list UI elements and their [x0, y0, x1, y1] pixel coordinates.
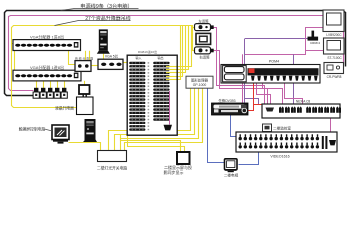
- wire red mixer-dvd: [249, 73, 254, 111]
- mic left (左话筒): [195, 24, 211, 31]
- wire mic1 feed: [193, 27, 195, 29]
- wire matrix input 4: [177, 26, 189, 70]
- svg-text:GP-1000: GP-1000: [193, 83, 207, 87]
- wire blue tv to video1616: [239, 153, 259, 165]
- wire lamp feed 1: [109, 89, 191, 151]
- display sync box: [177, 152, 190, 164]
- wire matrix speaker violet: [169, 91, 171, 125]
- svg-text:二楼灯光开关电脑: 二楼灯光开关电脑: [97, 165, 128, 170]
- wire splitter1 left feed: [11, 43, 13, 45]
- wire red to nexia: [254, 104, 263, 106]
- monitor room icon box: [263, 124, 272, 132]
- svg-text:音 频 分 配 器: 音 频 分 配 器: [75, 56, 93, 61]
- svg-text:输出: 输出: [157, 55, 163, 60]
- lamp switch PC box: [98, 151, 127, 162]
- wire violet down to dvd: [244, 39, 246, 103]
- wire pass-through to nexia: [293, 54, 295, 104]
- device CR-PWR8: [324, 63, 344, 74]
- svg-text:LVB9200C: LVB9200C: [326, 33, 342, 37]
- wire yellow lifter-cable loop: [12, 26, 193, 108]
- CRRF4 receiver: [312, 31, 315, 38]
- svg-text:触摸屏控制电脑: 触摸屏控制电脑: [19, 126, 46, 131]
- LCD lifter: [79, 85, 90, 94]
- wire nexia to video1616: [330, 118, 332, 137]
- svg-text:CR-PWR8: CR-PWR8: [327, 75, 342, 79]
- wire matrix row stub 3: [166, 72, 177, 74]
- wire lvb9200c link: [245, 28, 323, 55]
- wire matrix row stub 4: [166, 69, 177, 71]
- svg-text:左话筒: 左话筒: [198, 19, 209, 24]
- wire matrix input 5: [177, 26, 192, 67]
- wire pink down to dvd: [242, 54, 244, 102]
- callout leader lifter: [55, 21, 131, 26]
- wire power-line loop (black): [5, 11, 346, 96]
- VGA interface box: [98, 59, 123, 69]
- mic right (右话筒): [195, 47, 211, 54]
- svg-text:RGB16进16出: RGB16进16出: [138, 49, 157, 54]
- VGA splitter 2 (1进8出): [13, 70, 81, 81]
- mixer POM4: [221, 65, 320, 84]
- svg-text:POM4: POM4: [269, 60, 279, 64]
- svg-text:输入: 输入: [135, 55, 141, 60]
- wire st7100c link: [306, 50, 324, 52]
- wire splitter1 out port down: [69, 51, 75, 65]
- DSP NEXIA C8: [262, 104, 340, 118]
- svg-text:CRRF4: CRRF4: [310, 41, 320, 45]
- device LVB9200C: [323, 10, 344, 32]
- wire crrf4 to nexia: [245, 38, 309, 40]
- svg-text:NEXIA C8: NEXIA C8: [296, 100, 311, 104]
- wire audio box to vga box: [91, 65, 98, 67]
- audio distributor box: [75, 61, 91, 72]
- wire mixer out 3: [285, 83, 303, 105]
- wire blue gp to tv: [208, 89, 225, 163]
- label leader touchscreen: [45, 129, 53, 131]
- device ST-7100C: [324, 38, 345, 54]
- wire plug drop 1: [36, 81, 38, 88]
- svg-text:VGA 5芯: VGA 5芯: [105, 53, 119, 58]
- svg-text:VGA分配器 1进8出: VGA分配器 1进8出: [30, 34, 64, 40]
- wire lamp feed 2: [115, 89, 195, 151]
- wire display box feed 2: [128, 135, 185, 153]
- wire matrix input 3: [177, 26, 186, 73]
- touchscreen control PC: [52, 125, 69, 140]
- tower PC 2: [85, 119, 96, 141]
- svg-text:液晶升降器: 液晶升降器: [55, 106, 74, 111]
- svg-text:右话筒: 右话筒: [199, 54, 210, 59]
- wire mic1 to nexia: [214, 28, 265, 105]
- tower PC 1: [99, 29, 108, 50]
- wire stub a: [85, 51, 87, 61]
- wire mixer out 1: [257, 83, 271, 105]
- wire lamp feed 3: [121, 89, 199, 151]
- svg-text:图形处理器: 图形处理器: [191, 77, 209, 82]
- graphics processor GP-1000: [186, 76, 213, 88]
- callout leader power: [61, 9, 139, 11]
- wire blue dvd to video1616: [231, 115, 238, 137]
- svg-text:影同步显示: 影同步显示: [164, 169, 184, 175]
- wire matrix input 2: [177, 26, 183, 77]
- RGB matrix RGB16进16出: [127, 55, 177, 135]
- svg-text:VGA分配器 1进8出: VGA分配器 1进8出: [30, 64, 64, 70]
- matrix speaker port: [164, 125, 173, 131]
- wire vga box to matrix: [123, 62, 131, 64]
- svg-text:二楼监控室: 二楼监控室: [273, 125, 291, 130]
- wire touchscreen to lamp box: [69, 143, 101, 151]
- wire mixer out 2: [263, 83, 283, 105]
- wire plug drop 3: [50, 81, 52, 88]
- svg-text:二楼电视: 二楼电视: [224, 172, 239, 177]
- svg-text:先锋DV393: 先锋DV393: [218, 98, 235, 103]
- sensor box: [196, 33, 211, 44]
- VGA splitter 1 (1进8出): [13, 40, 81, 51]
- wire matrix row stub 1: [166, 79, 177, 81]
- wire mic2 feed: [193, 28, 195, 51]
- wire plug drop 5: [64, 81, 66, 88]
- wire tower1 to vga box: [103, 54, 105, 60]
- wire stub b: [89, 51, 91, 61]
- svg-text:VIDEO1616: VIDEO1616: [270, 155, 289, 159]
- wire display box feed 1: [121, 135, 181, 153]
- svg-text:ST-7100C: ST-7100C: [327, 56, 342, 60]
- lifter plugs x5: [34, 88, 38, 92]
- TV 二楼电视: [225, 159, 238, 170]
- wire matrix row stub 2: [166, 76, 177, 78]
- wire matrix input 1: [177, 26, 181, 80]
- wire plug drop 2: [43, 81, 45, 88]
- DVD player 先锋DV393: [212, 103, 249, 115]
- wire plug drop 4: [57, 81, 59, 88]
- wire lifter feed stub: [84, 81, 86, 85]
- wire matrix row stub 5: [166, 66, 177, 68]
- wire lamp feed 4: [125, 89, 203, 151]
- wire mic2 to nexia: [214, 51, 268, 105]
- video matrix VIDEO1616: [236, 132, 337, 152]
- wire magenta cable loop: [9, 16, 344, 91]
- wire splitter1-splitter2 link: [13, 51, 15, 75]
